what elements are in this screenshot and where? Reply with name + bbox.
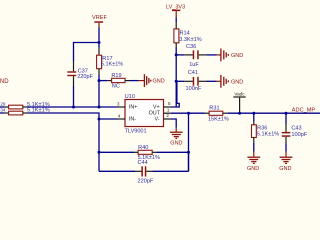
svg-text:3.3K±1%: 3.3K±1% (179, 37, 201, 43)
svg-text:R40: R40 (138, 145, 148, 151)
pin lead R31 right (223, 112, 227, 114)
wire C44 right (153, 170, 189, 172)
pin lead R40 left (134, 151, 138, 153)
resistor R36 (252, 125, 280, 138)
wire C36 junction down to C41 junction (175, 55, 177, 81)
svg-text:GND: GND (170, 140, 182, 146)
ground sideways at R19 (138, 74, 165, 87)
svg-text:R31: R31 (209, 106, 219, 112)
node C37 junction on IN+ (72, 106, 75, 109)
wire C41 to GND (207, 80, 217, 82)
wire junction down (98, 43, 100, 48)
power LV_3V3 (166, 5, 185, 18)
wire pin2 to GND (171, 119, 176, 128)
node C41 junction (175, 80, 178, 83)
node VREF junction (98, 41, 101, 44)
pin lead C41 right (199, 80, 207, 82)
svg-text:GND: GND (247, 166, 259, 172)
node R17 junction on IN+ (98, 106, 101, 109)
ground down at C43 (279, 152, 292, 172)
resistor R29 (designator clipped) (0, 102, 50, 109)
wire R19 to GND (130, 80, 139, 82)
wire C43 top (285, 113, 287, 123)
svg-text:1uF: 1uF (189, 62, 199, 68)
node C43 junction (285, 112, 288, 115)
svg-text:5.1K±1%: 5.1K±1% (257, 131, 279, 137)
svg-text:5.1K±1%: 5.1K±1% (101, 62, 123, 68)
ground sideways at C36 (217, 49, 244, 62)
wire feedback vertical left (98, 119, 100, 171)
pin lead R31 left (205, 112, 209, 114)
pin lead R36 bottom (253, 138, 255, 144)
pin lead C37 bottom (73, 76, 75, 86)
pin lead R19 right (125, 80, 130, 82)
svg-text:100nF: 100nF (186, 86, 202, 92)
pin lead C43 top (285, 124, 287, 132)
pin 5 stub (164, 101, 172, 107)
power VREF (92, 15, 108, 27)
pin lead C41 left (184, 80, 193, 82)
svg-text:GND: GND (231, 53, 243, 59)
svg-text:C41: C41 (188, 70, 198, 76)
capacitor C44 (138, 160, 154, 184)
wire down to C37 (73, 42, 75, 61)
wire C36 to GND (207, 54, 217, 56)
pin lead R19 left (107, 80, 111, 82)
svg-text:R29: R29 (0, 102, 6, 107)
svg-text:C43: C43 (291, 126, 301, 132)
svg-text:GND: GND (279, 166, 291, 172)
wire C41 junction down to pin5 corner (175, 81, 177, 107)
wire pin5 to V+ rail corner (171, 81, 179, 107)
svg-text:R34: R34 (0, 107, 6, 112)
pin lead C36 right (199, 54, 207, 56)
wire C37 to IN+ rail (73, 86, 75, 107)
resistor R14 (174, 29, 202, 43)
resistor R19 (111, 73, 125, 89)
capacitor C43 (282, 126, 308, 138)
resistor R17 (97, 55, 124, 68)
wire C43 to GND (285, 144, 287, 152)
pin lead C44 left (135, 170, 142, 172)
svg-text:100pF: 100pF (291, 132, 307, 138)
svg-text:IN-: IN- (129, 117, 136, 123)
op-amp U10 (125, 94, 164, 134)
node C36 junction (175, 53, 178, 56)
svg-text:15K±1%: 15K±1% (208, 117, 229, 123)
pin 3 stub (117, 102, 125, 107)
node IN- junction (98, 118, 101, 121)
capacitor C36 (186, 44, 199, 68)
node R19 tap junction (98, 79, 101, 82)
power Vadc (233, 91, 245, 113)
svg-text:IN+: IN+ (129, 105, 138, 111)
resistor R40 (138, 145, 160, 161)
svg-text:R14: R14 (180, 31, 190, 37)
pin lead R14 bottom (175, 43, 177, 48)
node R40 right junction (187, 151, 190, 154)
node R40 left junction (98, 151, 101, 154)
wire R36 top (253, 113, 255, 121)
resistor R31 (208, 106, 229, 123)
wire OUT rail to right edge (227, 112, 320, 114)
node Vadc junction (238, 112, 241, 115)
pin lead C43 bottom (285, 137, 287, 144)
pin lead R17 bottom (98, 69, 100, 75)
svg-text:GND: GND (0, 79, 9, 85)
pin 4 stub (118, 114, 126, 119)
wire R17 bottom to IN+ rail (98, 75, 100, 107)
svg-text:TLV9001: TLV9001 (125, 128, 147, 134)
wire R40 right (157, 151, 189, 153)
svg-text:VREF: VREF (92, 15, 108, 21)
wire IN+ rail (28, 106, 118, 108)
wire IN- input to corner (28, 113, 100, 119)
svg-text:R19: R19 (111, 73, 121, 79)
pin lead R17 top (98, 48, 100, 56)
wire feedback vertical right (188, 113, 190, 171)
pin lead R14 top (175, 22, 177, 29)
pin lead C37 top (73, 61, 75, 71)
pin 1 stub (164, 107, 172, 113)
pin 2 stub (164, 113, 172, 119)
wire junction to R19 (99, 80, 107, 82)
pin lead R40 right (152, 151, 156, 153)
svg-text:Vadc: Vadc (234, 91, 245, 96)
wire C44 left (99, 170, 135, 172)
wire junction to C36 (176, 54, 184, 56)
svg-text:220pF: 220pF (77, 74, 93, 80)
wire OUT pin1 rail (171, 112, 205, 114)
resistor R34 (designator clipped) (0, 107, 50, 115)
wire IN- junction to pin4 (99, 118, 118, 120)
ground sideways at C41 (217, 75, 244, 88)
node feedback junction (187, 112, 190, 115)
svg-text:V+: V+ (153, 105, 160, 111)
svg-text:C44: C44 (138, 160, 148, 166)
pin lead R36 top (253, 122, 255, 125)
ground down at R36 (247, 152, 260, 172)
pin lead C36 left (184, 54, 193, 56)
svg-text:GND: GND (153, 79, 165, 85)
wire C44 corner up (drawn with feedback vertical) (188, 152, 190, 171)
wire R36 to GND (253, 143, 255, 152)
node R36 junction (252, 112, 255, 115)
svg-text:220pF: 220pF (138, 178, 154, 184)
svg-text:GND: GND (231, 79, 243, 85)
wire junction left to C37 branch (74, 42, 100, 44)
wire VREF stem down to junction (98, 28, 100, 43)
svg-text:NC: NC (112, 84, 120, 90)
svg-text:V-: V- (155, 117, 160, 123)
pin lead C44 right (146, 170, 152, 172)
wire LV_3V3 to R14 (175, 17, 177, 22)
ground down at U10 pin2 (170, 128, 183, 147)
capacitor C37 (67, 69, 93, 80)
wire R14 to C36 junction (175, 48, 177, 55)
svg-text:ADC_MP: ADC_MP (292, 107, 316, 113)
svg-text:U10: U10 (125, 94, 135, 100)
capacitor C41 (186, 70, 202, 92)
wire junction to C41 (176, 80, 184, 82)
wire R40 left (99, 151, 134, 153)
svg-text:C36: C36 (186, 44, 196, 50)
